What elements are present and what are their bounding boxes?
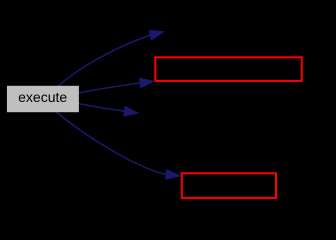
edge execute->node2 (to upper red box)	[78, 78, 154, 93]
edge execute->node3 (short middle)	[78, 104, 139, 117]
edge execute->node4 (to lower red box, curved)	[57, 112, 181, 180]
node2 red box (upper)	[155, 57, 301, 81]
edge execute->node1 (top, curved)	[59, 30, 165, 86]
node4 red box (lower)	[182, 173, 276, 198]
svg-text:execute: execute	[18, 89, 67, 105]
node execute (gray box)	[7, 86, 79, 112]
